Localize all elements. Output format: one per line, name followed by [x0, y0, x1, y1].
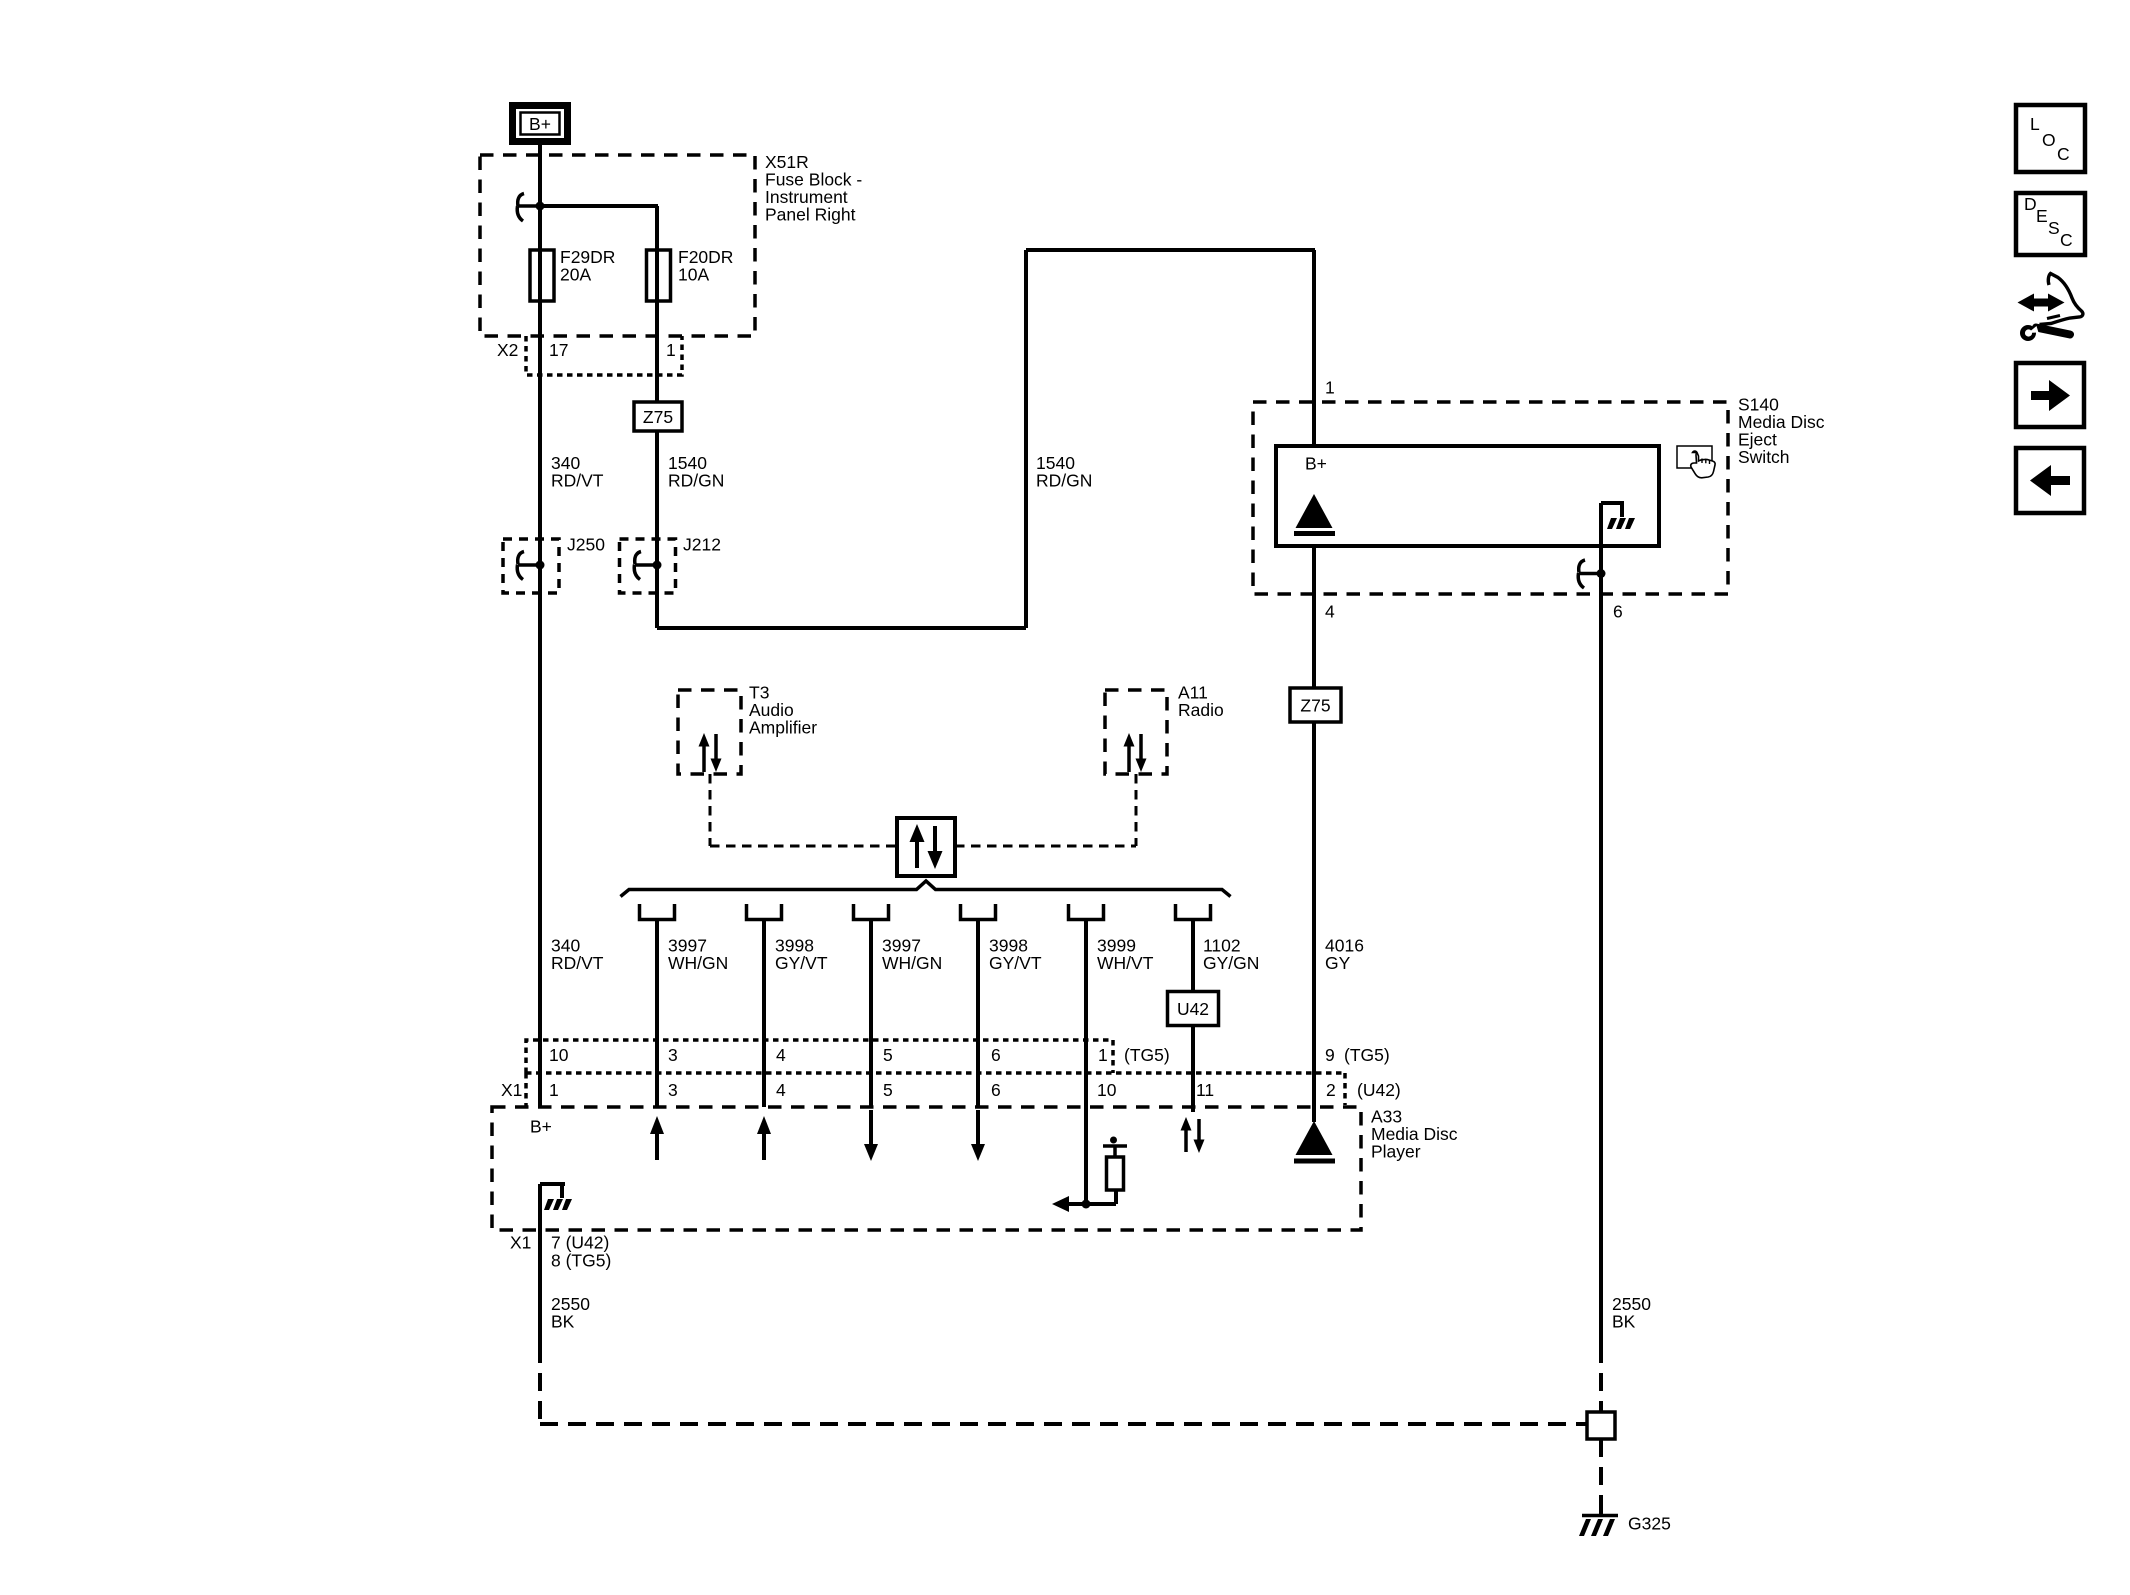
fuse block X51R dashed box [480, 155, 755, 336]
svg-text:X1: X1 [501, 1080, 522, 1100]
svg-text:RD/VT: RD/VT [551, 471, 604, 491]
svg-text:4: 4 [776, 1080, 786, 1100]
svg-text:E: E [2036, 206, 2048, 226]
svg-text:J212: J212 [683, 535, 721, 555]
svg-text:7 (U42): 7 (U42) [551, 1233, 609, 1253]
B+ power symbol box [513, 106, 568, 142]
svg-text:D: D [2024, 194, 2037, 214]
S140 inner switch body box [1276, 446, 1659, 546]
label A11 Radio [1178, 683, 1224, 721]
icon DESC box [2016, 193, 2085, 255]
T3 Audio Amplifier dashed box [678, 690, 741, 774]
svg-text:C: C [2060, 230, 2073, 250]
svg-text:GY/GN: GY/GN [1203, 953, 1259, 973]
ground G325 symbol [1579, 1504, 1618, 1536]
dashed ground run to G325 [540, 1345, 1601, 1504]
wire fuse block internal jumper [540, 206, 658, 250]
svg-text:S: S [2048, 218, 2060, 238]
svg-text:(TG5): (TG5) [1344, 1045, 1390, 1065]
svg-text:4: 4 [776, 1045, 786, 1065]
dashed comm wires from T3 and A11 to data box [710, 774, 1136, 846]
svg-text:1: 1 [549, 1080, 559, 1100]
svg-text:WH/GN: WH/GN [668, 953, 728, 973]
svg-text:RD/GN: RD/GN [668, 471, 724, 491]
in-line connector U42 box [1168, 992, 1219, 1026]
svg-text:WH/GN: WH/GN [882, 953, 942, 973]
icon next arrow box [2016, 363, 2084, 427]
splice J212 dashed box [620, 539, 676, 593]
svg-text:X2: X2 [497, 340, 518, 360]
connector row X1 side edges [524, 1073, 528, 1107]
harness branch symbols [640, 904, 1211, 920]
fuse F29DR 20A [530, 250, 554, 301]
svg-text:20A: 20A [560, 265, 591, 285]
svg-text:X1: X1 [510, 1233, 531, 1253]
arrows in A11 [1124, 733, 1147, 772]
wire run to S140: down, right, up, right [657, 250, 1315, 628]
svg-text:9: 9 [1325, 1045, 1335, 1065]
svg-text:B+: B+ [1305, 454, 1327, 474]
clip symbol below S140 body [1578, 560, 1599, 588]
svg-text:Amplifier: Amplifier [749, 718, 817, 738]
up arrow in A33 under pin 4 [757, 1116, 771, 1160]
svg-text:1: 1 [1325, 378, 1335, 398]
svg-text:5: 5 [883, 1080, 893, 1100]
svg-text:WH/VT: WH/VT [1097, 953, 1154, 973]
svg-text:J250: J250 [567, 535, 605, 555]
svg-text:3: 3 [668, 1080, 678, 1100]
svg-text:4: 4 [1325, 602, 1335, 622]
svg-text:U42: U42 [1177, 999, 1209, 1019]
icon LOC box [2016, 105, 2085, 172]
clip symbol J212 [634, 552, 655, 580]
node junction dot in fuse block [536, 202, 545, 211]
clip symbol J250 [517, 552, 538, 580]
label A33 Media Disc Player [1371, 1107, 1458, 1162]
label T3 Audio Amplifier [749, 683, 817, 738]
svg-text:Z75: Z75 [1300, 696, 1330, 716]
icon back arrow box [2016, 448, 2084, 513]
wire below U42 [1191, 1026, 1195, 1113]
svg-text:1: 1 [1098, 1045, 1108, 1065]
svg-text:(U42): (U42) [1357, 1080, 1401, 1100]
fuse F20DR 10A [647, 250, 671, 301]
svg-text:GY/VT: GY/VT [775, 953, 828, 973]
svg-text:G325: G325 [1628, 1514, 1671, 1534]
wire from F20DR down through connector [655, 250, 659, 628]
S140 Media Disc Eject Switch dashed box [1253, 402, 1728, 594]
hand actuator icon [1677, 446, 1715, 478]
svg-text:10: 10 [1097, 1080, 1117, 1100]
up arrow in A33 under pin 3 [650, 1116, 664, 1160]
chassis ground symbol inside A33 [540, 1184, 572, 1210]
svg-text:Panel Right: Panel Right [765, 205, 856, 225]
icon repair/panel with wrench [2018, 274, 2083, 342]
wire B+ feed vertical 340 RD/VT [538, 145, 542, 1107]
svg-text:C: C [2057, 144, 2070, 164]
svg-text:Z75: Z75 [643, 407, 673, 427]
svg-text:11: 11 [1196, 1080, 1214, 1100]
svg-text:B+: B+ [530, 1117, 552, 1137]
connector row TG5 dotted box [526, 1040, 1345, 1105]
label X51R Fuse Block - Instrument Panel Right [765, 152, 862, 225]
clip symbol at fuse block junction [517, 194, 538, 222]
svg-text:2: 2 [1326, 1080, 1336, 1100]
svg-text:GY: GY [1325, 953, 1351, 973]
svg-text:RD/VT: RD/VT [551, 953, 604, 973]
arrows in T3 [699, 733, 722, 772]
svg-text:B+: B+ [529, 114, 551, 134]
down arrow in A33 under pin 6 [971, 1110, 985, 1161]
ground wire exits A33 [538, 1184, 542, 1345]
svg-text:10A: 10A [678, 265, 709, 285]
svg-text:Player: Player [1371, 1142, 1421, 1162]
svg-text:17: 17 [549, 340, 568, 360]
resistor network in A33 [1052, 1137, 1127, 1213]
wire from ground symbol down through S140 [1599, 503, 1603, 1345]
svg-text:BK: BK [551, 1312, 575, 1332]
splice Z75 box (left) [634, 402, 682, 431]
wire 4016 GY from S140 pin 4 [1312, 546, 1316, 1122]
svg-text:8 (TG5): 8 (TG5) [551, 1251, 611, 1271]
svg-text:L: L [2030, 114, 2040, 134]
down arrow in A33 under pin 5 [864, 1110, 878, 1161]
splice J250 dashed box [503, 539, 559, 593]
brace over harness [621, 881, 1231, 897]
svg-text:GY/VT: GY/VT [989, 953, 1042, 973]
eject triangle symbol in A33 [1296, 1121, 1333, 1155]
label S140 Media Disc Eject Switch [1738, 395, 1825, 468]
A11 Radio dashed box [1105, 690, 1167, 774]
serial data arrows in A33 under pin 11 [1181, 1117, 1205, 1153]
svg-text:6: 6 [991, 1045, 1001, 1065]
splice Z75 box (right) [1290, 688, 1341, 722]
eject triangle symbol in S140 [1296, 494, 1333, 528]
branch wires down to A33 [657, 919, 1193, 1204]
svg-text:Switch: Switch [1738, 447, 1790, 467]
svg-text:6: 6 [1613, 602, 1623, 622]
svg-text:3: 3 [668, 1045, 678, 1065]
svg-text:BK: BK [1612, 1312, 1636, 1332]
serial data box with arrows [897, 818, 955, 876]
svg-text:RD/GN: RD/GN [1036, 471, 1092, 491]
svg-text:(TG5): (TG5) [1124, 1045, 1170, 1065]
svg-text:5: 5 [883, 1045, 893, 1065]
chassis ground symbol inside S140 [1601, 503, 1635, 529]
A33 Media Disc Player dashed box [492, 1107, 1361, 1230]
svg-text:6: 6 [991, 1080, 1001, 1100]
svg-text:10: 10 [549, 1045, 569, 1065]
splice box at ground run [1587, 1412, 1615, 1439]
svg-text:O: O [2042, 130, 2056, 150]
connector X2 dotted box [526, 336, 682, 375]
svg-text:1: 1 [666, 340, 676, 360]
svg-text:Radio: Radio [1178, 700, 1224, 720]
